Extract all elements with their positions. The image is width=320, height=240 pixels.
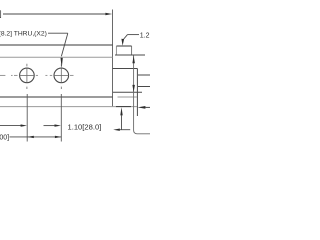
extension line from hole H2 down: [60, 94, 62, 142]
side tab right edge: [136, 69, 138, 117]
svg-text:1.2: 1.2: [140, 32, 150, 39]
bottom leader line: [120, 129, 131, 131]
side inner edge y=97: [118, 96, 138, 98]
row A left dimension line (cut off): [0, 125, 22, 127]
hole callout leader horizontal: [48, 32, 68, 34]
hole callout leader slant: [61, 33, 67, 56]
bar inner top edge: [0, 56, 113, 58]
extension line right x=112.5: [112, 10, 114, 107]
row B right arrowhead: [55, 136, 61, 138]
hole H1 center cross horizontal: [20, 74, 34, 76]
bottom small dimension up arrowhead: [120, 107, 122, 115]
right dimension up arrowhead: [132, 56, 135, 64]
hole callout arrowhead: [61, 58, 63, 69]
hole H2: [54, 68, 69, 83]
hole H2 centerline dash below: [60, 87, 62, 89]
extension line right y=75: [138, 74, 150, 76]
right side arrow at tab edge: [138, 106, 146, 109]
hole H1: [20, 68, 35, 83]
bar top edge: [0, 44, 113, 46]
extension line from hole H1 down: [26, 94, 28, 142]
hole H1 centerline dash above: [26, 64, 28, 67]
row B left arrowhead: [27, 136, 33, 138]
row A right arrowhead: [55, 124, 62, 126]
top dimension arrowhead: [105, 13, 112, 16]
svg-text:[8.2] THRU,(X2): [8.2] THRU,(X2): [0, 31, 47, 38]
side tab top edge: [113, 68, 138, 70]
thickness leader horizontal: [128, 34, 140, 36]
hole H2 center cross horizontal: [54, 74, 68, 76]
hole H1 centerline dash below: [26, 87, 28, 89]
extension line y=92.2: [113, 91, 142, 93]
side flange left edge: [115, 46, 117, 55]
svg-text:1.10[28.0]: 1.10[28.0]: [68, 122, 102, 131]
extension line right y=86.5: [138, 86, 150, 88]
row B dimension line: [10, 136, 62, 138]
hole H1 center cross vertical: [26, 68, 28, 82]
side view bottom edge (dark segment): [116, 106, 131, 108]
row A left arrowhead: [21, 124, 27, 126]
hole H2 centerline dash above: [60, 64, 62, 67]
thickness leader arrowhead: [121, 39, 124, 46]
row A right dimension line: [44, 125, 56, 127]
right side arrow tail: [145, 106, 150, 108]
right dimension down arrowhead: [132, 85, 135, 92]
bottom leader left arrowhead: [113, 129, 120, 131]
side flange bottom edge / extension: [115, 54, 145, 56]
right vertical dimension line with corner leader: [134, 56, 150, 134]
bar lower flange edge (light): [0, 106, 137, 108]
hole H2 center cross vertical: [60, 68, 62, 82]
side flange top edge: [116, 45, 131, 47]
bar bottom edge: [0, 96, 113, 98]
svg-text:.00]: .00]: [0, 135, 9, 142]
top overall dimension line: [3, 13, 107, 15]
thickness leader slant: [123, 35, 127, 40]
bottom small dimension stem: [121, 115, 123, 129]
side flange right edge: [131, 46, 133, 55]
svg-text:]: ]: [0, 9, 2, 18]
hole H1 centerline dash right: [36, 74, 38, 76]
horizontal centerline: [0, 74, 5, 76]
